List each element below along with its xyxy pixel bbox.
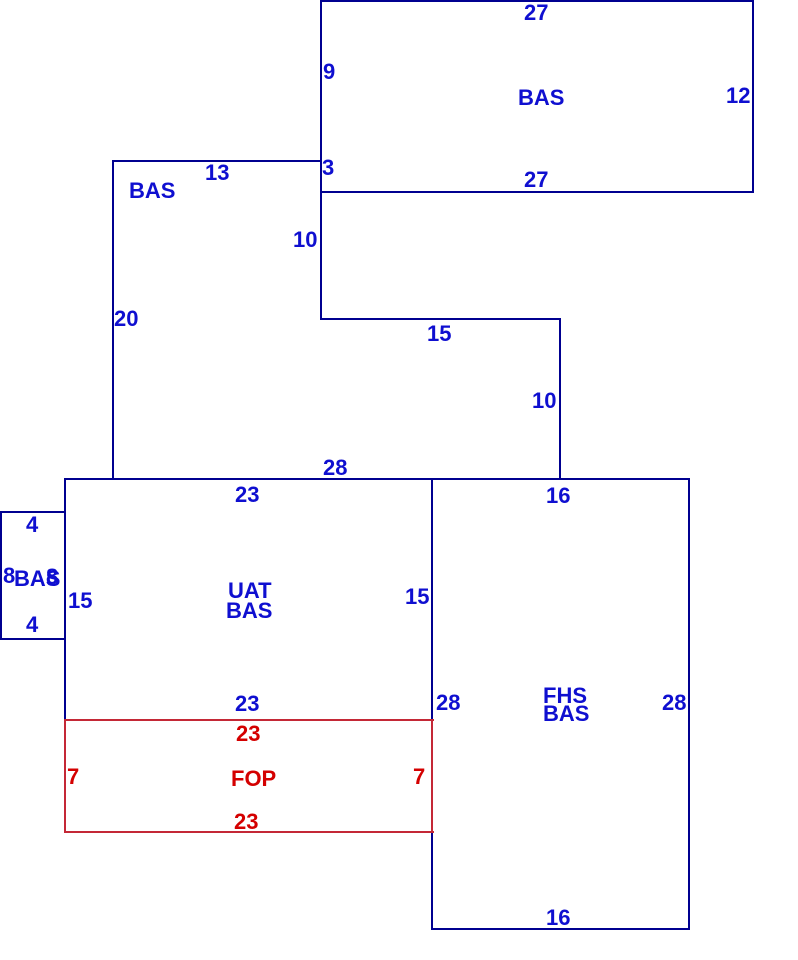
svg-text:20: 20 <box>114 306 138 331</box>
svg-text:FOP: FOP <box>231 766 276 791</box>
wall: FOP red rectangle right edge <box>431 719 433 833</box>
svg-text:10: 10 <box>293 227 317 252</box>
svg-text:3: 3 <box>322 155 334 180</box>
wall: FOP red rectangle top edge <box>64 719 434 721</box>
wall: top BAS rectangle top edge <box>320 0 754 2</box>
svg-text:7: 7 <box>67 764 79 789</box>
wall: small left BAS box bottom edge <box>0 638 66 640</box>
wall: left BAS polygon top edge <box>112 160 322 162</box>
wall: FHS BAS right edge <box>688 478 690 930</box>
svg-text:12: 12 <box>726 83 750 108</box>
svg-text:BAS: BAS <box>543 701 589 726</box>
svg-text:27: 27 <box>524 0 548 25</box>
svg-text:10: 10 <box>532 388 556 413</box>
svg-text:BAS: BAS <box>518 85 564 110</box>
svg-text:9: 9 <box>323 59 335 84</box>
wall: notch horizontal at y=319 <box>320 318 561 320</box>
svg-text:15: 15 <box>68 588 92 613</box>
wall: FOP red rectangle left edge <box>64 719 66 833</box>
svg-text:7: 7 <box>413 764 425 789</box>
wall: FOP red rectangle bottom edge <box>64 831 434 833</box>
wall: notch vertical at x=559 <box>559 318 561 480</box>
svg-text:28: 28 <box>323 455 347 480</box>
wall: FHS BAS bottom edge <box>431 928 690 930</box>
wall: UAT BAS left edge <box>64 478 66 721</box>
svg-text:16: 16 <box>546 483 570 508</box>
svg-text:BAS: BAS <box>129 178 175 203</box>
wall: small left BAS box top edge <box>0 511 66 513</box>
wall: main horizontal at y=479 spanning UAT and FHS tops <box>64 478 690 480</box>
svg-text:4: 4 <box>26 612 39 637</box>
wall: small left BAS box left edge <box>0 511 2 640</box>
wall: top BAS rectangle bottom edge <box>320 191 754 193</box>
svg-text:28: 28 <box>662 690 686 715</box>
svg-text:27: 27 <box>524 167 548 192</box>
svg-text:13: 13 <box>205 160 229 185</box>
svg-text:28: 28 <box>436 690 460 715</box>
svg-text:23: 23 <box>234 809 258 834</box>
svg-text:23: 23 <box>235 482 259 507</box>
wall: left BAS polygon left edge <box>112 160 114 480</box>
wall: top BAS rectangle right edge <box>752 0 754 193</box>
svg-text:4: 4 <box>26 512 39 537</box>
svg-text:8: 8 <box>46 564 58 589</box>
svg-text:15: 15 <box>405 584 429 609</box>
svg-text:23: 23 <box>236 721 260 746</box>
svg-text:BAS: BAS <box>226 598 272 623</box>
svg-text:23: 23 <box>235 691 259 716</box>
svg-text:15: 15 <box>427 321 451 346</box>
wall: top BAS rectangle left edge continuing down to notch <box>320 0 322 320</box>
wall: shared vertical UAT right / FHS left edge <box>431 478 433 930</box>
svg-text:16: 16 <box>546 905 570 930</box>
